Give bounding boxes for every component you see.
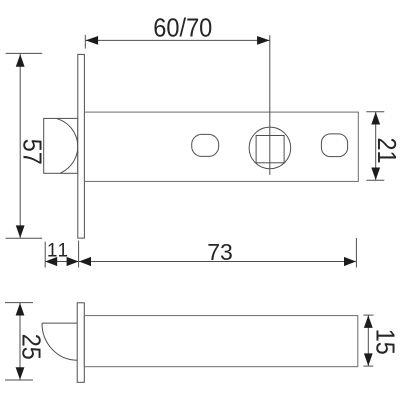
- dim line: [375, 112, 377, 180]
- arrow up: [371, 112, 380, 125]
- tick bottom: [363, 365, 373, 367]
- bolt nose arc: [57, 119, 78, 173]
- arrow 73 left: [79, 257, 91, 266]
- tick bottom: [5, 379, 33, 381]
- faceplate (top view): [78, 54, 85, 238]
- dimension line: [19, 54, 21, 238]
- arrow up: [16, 54, 25, 66]
- dim line 11: [45, 261, 78, 263]
- arrow 11 right: [67, 257, 79, 266]
- latch body (side view): [84, 316, 358, 367]
- rounded square hole (right): [321, 134, 347, 157]
- tick top: [366, 111, 384, 113]
- dimension line: [86, 39, 270, 41]
- svg-text:25: 25: [17, 334, 47, 360]
- small oval hole: [192, 134, 219, 156]
- extension line bolt-left: [44, 242, 46, 268]
- arrow left: [86, 36, 99, 45]
- svg-text:57: 57: [18, 139, 48, 165]
- latch body (top view): [84, 112, 358, 181]
- bolt profile (side view): [42, 323, 77, 360]
- extension line faceplate-left: [78, 241, 80, 268]
- centerline through spindle (60/70 extension): [269, 35, 271, 175]
- dim line: [367, 315, 369, 366]
- arrow down: [16, 225, 25, 238]
- arrow down: [16, 367, 25, 380]
- svg-text:11: 11: [47, 241, 70, 262]
- dim line 73: [79, 261, 357, 263]
- square spindle hole: [256, 136, 284, 163]
- svg-text:60/70: 60/70: [153, 12, 212, 42]
- arrow down: [364, 353, 373, 366]
- tick top: [5, 302, 33, 304]
- tick bottom: [366, 179, 384, 181]
- tick top: [363, 314, 373, 316]
- faceplate (side view): [77, 303, 84, 383]
- spindle circle: [249, 127, 291, 169]
- arrow up: [16, 303, 25, 316]
- arrow 73 right: [344, 257, 356, 266]
- arrow 11 left: [45, 257, 57, 266]
- svg-text:15: 15: [371, 329, 401, 355]
- svg-text:21: 21: [372, 138, 402, 164]
- dim line: [19, 303, 21, 380]
- extension line left: [84, 35, 86, 49]
- tick bottom: [6, 237, 43, 239]
- latch bolt (top view): [44, 118, 78, 173]
- svg-text:73: 73: [207, 239, 233, 265]
- arrow down: [371, 168, 380, 181]
- extension line body-right: [355, 238, 357, 268]
- tick top: [6, 52, 43, 54]
- arrow right: [257, 36, 270, 45]
- arrow up: [364, 315, 373, 328]
